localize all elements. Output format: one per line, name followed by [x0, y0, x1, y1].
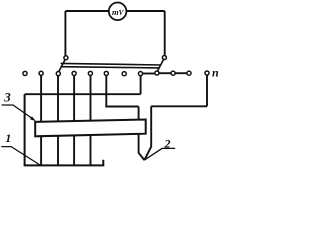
terminal 5 — [88, 71, 92, 75]
terminal 1 — [23, 71, 27, 75]
thermowell pocket 2 left wall — [139, 107, 145, 161]
wire left drop to switch pivot — [64, 11, 66, 56]
wire stem terminal 4 — [73, 75, 75, 165]
switch pivot right — [162, 56, 166, 60]
terminal 2 — [39, 71, 43, 75]
millivoltmeter mV — [109, 3, 127, 21]
wire row link 8-9 — [143, 73, 156, 75]
wire stem terminal 3 — [57, 75, 59, 165]
terminal 6 — [104, 71, 108, 75]
wire right drop to switch pivot — [164, 11, 166, 55]
terminal 7 — [122, 72, 126, 76]
svg-text:3: 3 — [3, 89, 11, 104]
wire from terminal P to pocket — [151, 105, 207, 107]
leader line label 2 — [144, 148, 175, 160]
thermowell pocket 2 right wall — [144, 106, 151, 160]
arrowhead leader 3 — [30, 116, 36, 121]
switch pivot left — [64, 56, 68, 60]
wire stem terminal P — [206, 76, 208, 107]
wire stem terminal 5 — [90, 75, 92, 165]
switch blade right diagonal — [157, 59, 163, 71]
svg-text:2: 2 — [164, 136, 171, 150]
svg-text:п: п — [212, 65, 219, 79]
wire row link 9-10 — [159, 72, 171, 74]
terminal 11 — [187, 71, 191, 75]
terminal 10 — [171, 71, 175, 75]
terminal 8 — [138, 72, 142, 76]
svg-text:1: 1 — [5, 131, 11, 145]
switch blade bar lower — [61, 67, 160, 68]
switch blade left diagonal — [59, 59, 66, 72]
wire stem terminal 6 to pocket — [106, 75, 138, 106]
wire top from millivoltmeter left — [65, 10, 164, 12]
wire stem terminal 2 — [40, 75, 42, 165]
terminal 9 switch right contact — [155, 71, 159, 75]
svg-text:mV: mV — [112, 7, 125, 17]
terminal 4 — [72, 71, 76, 75]
switch blade bar upper — [61, 63, 162, 65]
cover slab 3 — [35, 120, 146, 137]
terminal 3 switch left contact — [56, 72, 60, 76]
leader line label 1 — [1, 147, 40, 165]
leader line label 3 — [2, 105, 35, 120]
thermostat box 1 — [25, 94, 104, 165]
wire stem terminal 8 — [140, 75, 142, 94]
wire row link 10-11 — [175, 72, 187, 74]
terminal P — [205, 71, 209, 75]
wire bus box top — [25, 93, 141, 95]
